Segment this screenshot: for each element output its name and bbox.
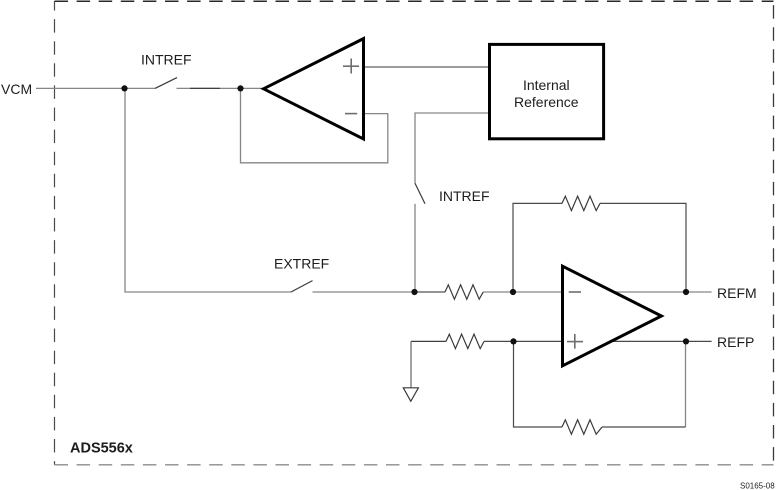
svg-text:REFM: REFM — [717, 285, 757, 301]
svg-text:VCM: VCM — [1, 81, 32, 97]
svg-text:Internal: Internal — [523, 77, 570, 93]
svg-text:INTREF: INTREF — [141, 52, 192, 68]
svg-text:S0165-08: S0165-08 — [740, 482, 775, 490]
svg-text:EXTREF: EXTREF — [274, 256, 329, 272]
svg-text:INTREF: INTREF — [439, 188, 490, 204]
svg-text:ADS556x: ADS556x — [70, 441, 133, 457]
svg-text:Reference: Reference — [514, 94, 579, 110]
svg-text:REFP: REFP — [717, 334, 754, 350]
